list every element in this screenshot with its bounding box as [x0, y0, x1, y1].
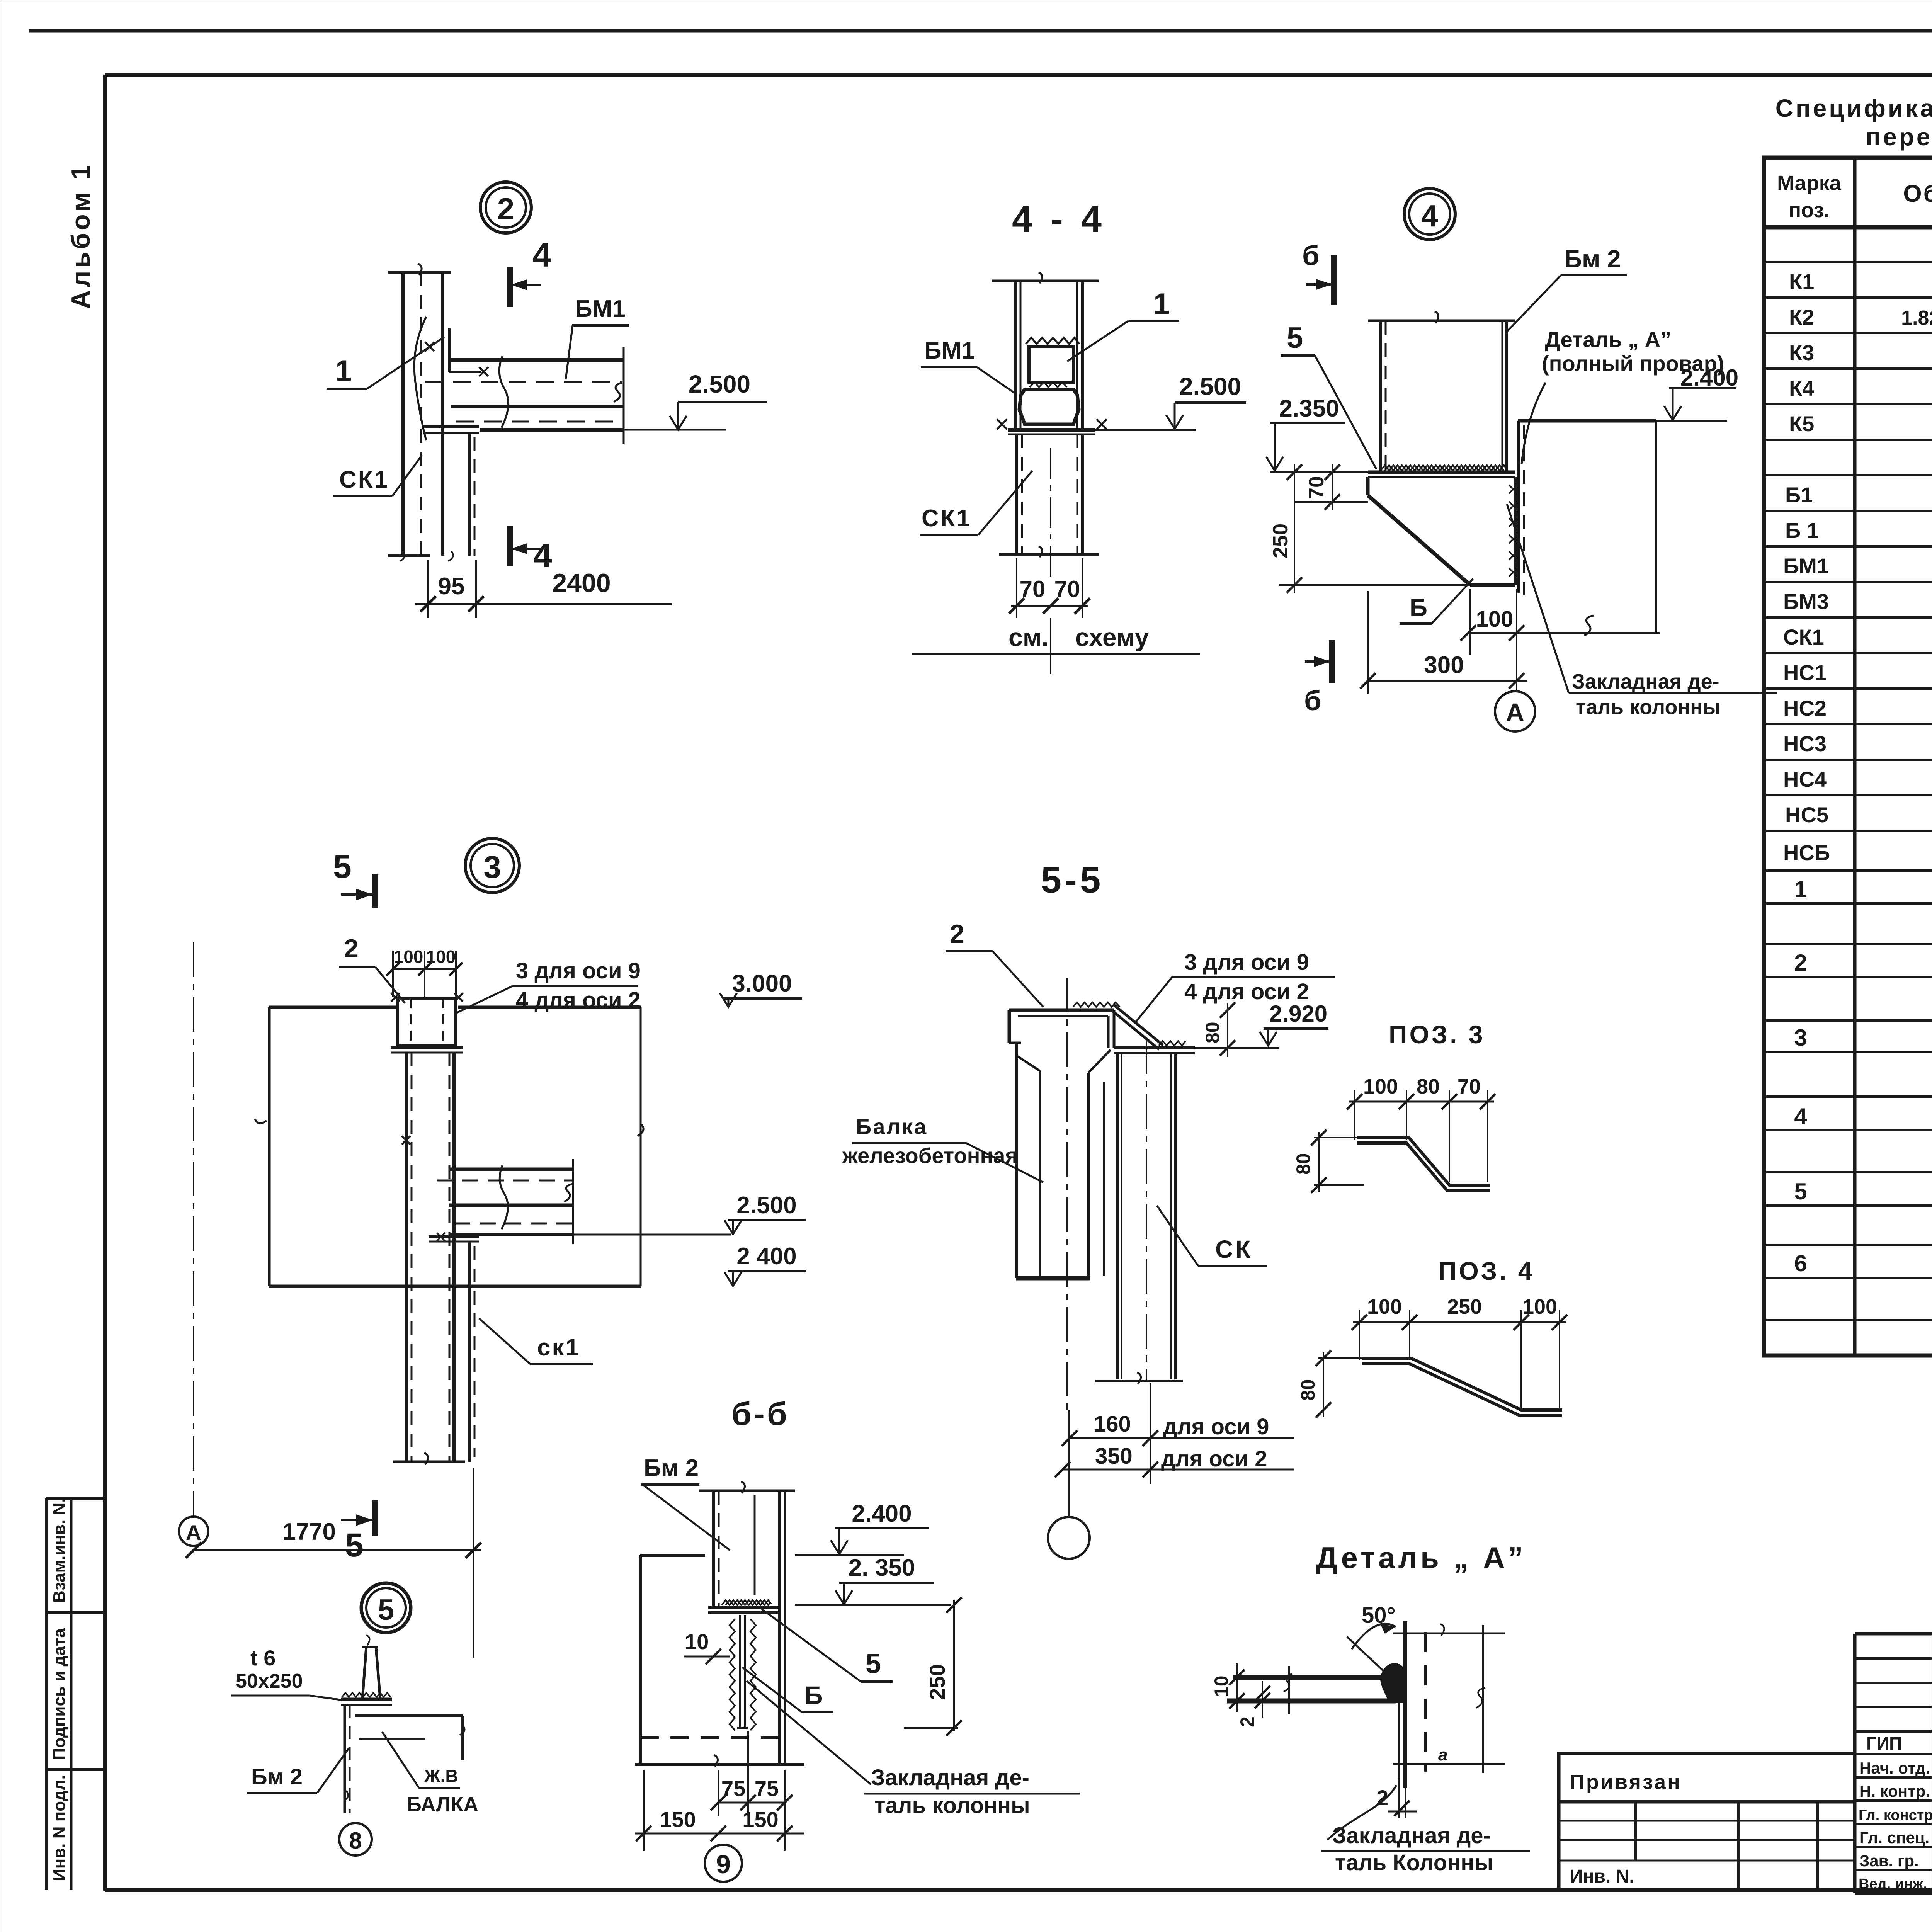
spec table rows text	[1783, 232, 1932, 865]
svg-text:Альбом 1: Альбом 1	[66, 162, 95, 309]
plate node5	[341, 1693, 392, 1705]
label БМ1 4-4	[921, 337, 1016, 394]
column node3	[393, 1053, 465, 1464]
поз.4 plate	[1362, 1358, 1562, 1415]
svg-text:1770: 1770	[282, 1519, 336, 1545]
column top 4-4	[992, 272, 1099, 430]
dim 1770 node3	[186, 1468, 481, 1658]
node 4 bubble	[1404, 189, 1455, 240]
wall 6-6	[635, 1555, 804, 1767]
section mark 5 top node3	[333, 848, 375, 908]
extension line with break деталь А	[1284, 1666, 1292, 1714]
svg-text:таль Колонны: таль Колонны	[1335, 1850, 1493, 1875]
svg-text:см.: см.	[1009, 623, 1049, 651]
svg-text:перекрытия, фахверковых: перекрытия, фахверковых стоек	[1866, 123, 1932, 151]
svg-text:таль колонны: таль колонны	[874, 1793, 1030, 1818]
svg-text:2.400: 2.400	[1680, 365, 1738, 391]
svg-text:t 6: t 6	[250, 1646, 276, 1670]
svg-text:Н. контр.: Н. контр.	[1859, 1782, 1930, 1800]
label Б node4	[1400, 579, 1473, 624]
svg-text:80: 80	[1297, 1379, 1319, 1401]
svg-text:2.500: 2.500	[736, 1192, 796, 1219]
svg-text:К3: К3	[1789, 340, 1814, 365]
svg-text:350: 350	[1095, 1444, 1133, 1469]
svg-text:поз.: поз.	[1789, 199, 1830, 222]
поз.4 title	[1438, 1257, 1535, 1285]
left margin strip table	[46, 1498, 105, 1890]
svg-text:К1: К1	[1789, 269, 1814, 294]
beam БМ1 cross-section 4-4	[1019, 389, 1079, 424]
svg-text:для оси 9: для оси 9	[1163, 1414, 1269, 1439]
label жб балка node5	[382, 1732, 478, 1816]
svg-text:СК1: СК1	[339, 466, 389, 493]
dim 10 6-6	[684, 1629, 730, 1664]
elevation 2.920 5-5	[1195, 1001, 1328, 1048]
spec table header texts	[1777, 163, 1932, 222]
svg-text:2: 2	[1794, 950, 1807, 976]
lower slab 2.400 node3	[269, 1007, 643, 1286]
svg-text:Нач. отд.: Нач. отд.	[1859, 1759, 1930, 1777]
plate 6-6	[708, 1607, 781, 1612]
sloped plate pos3/4 5-5	[1111, 1005, 1163, 1049]
label 1 4-4	[1067, 287, 1179, 361]
axis line А node3	[179, 942, 208, 1546]
svg-text:Обозначение: Обозначение	[1903, 180, 1932, 207]
top slab line 3.000 node3	[255, 1007, 641, 1286]
svg-text:4: 4	[532, 236, 551, 274]
section mark 5 bottom node3	[341, 1500, 375, 1564]
svg-text:ПОЗ. 4: ПОЗ. 4	[1438, 1257, 1535, 1285]
dim 250 6-6	[904, 1597, 962, 1736]
dim 80 top 5-5	[1202, 1002, 1235, 1057]
svg-text:70: 70	[1054, 576, 1080, 602]
svg-text:80: 80	[1293, 1153, 1314, 1175]
svg-text:Деталь „ А”: Деталь „ А”	[1545, 327, 1671, 352]
label СК 5-5	[1157, 1206, 1267, 1266]
svg-text:для оси 2: для оси 2	[1161, 1446, 1267, 1471]
svg-text:а: а	[1438, 1745, 1447, 1764]
column flange деталь А	[1399, 1621, 1425, 1788]
svg-text:Деталь „ А”: Деталь „ А”	[1316, 1541, 1526, 1575]
деталь А title	[1316, 1541, 1526, 1575]
label 5 6-6	[762, 1609, 893, 1682]
svg-text:БМ1: БМ1	[924, 337, 975, 364]
svg-text:схему: схему	[1075, 623, 1149, 651]
channel cap 5-5	[1009, 1010, 1114, 1048]
svg-text:Марка: Марка	[1777, 172, 1842, 195]
svg-text:Балка: Балка	[856, 1114, 928, 1139]
svg-text:1.823.1- 2 вып.1: 1.823.1- 2 вып.1	[1901, 307, 1932, 329]
section 4-4 title	[1012, 199, 1105, 240]
svg-text:100: 100	[1363, 1075, 1398, 1098]
svg-text:1: 1	[1794, 876, 1807, 902]
dim 2 bottom деталь А	[1376, 1780, 1417, 1818]
dim 100 node4	[1470, 589, 1513, 655]
svg-text:НС4: НС4	[1783, 767, 1827, 791]
column БМ2 6-6	[699, 1481, 795, 1764]
pos1 plate in section 4-4	[1026, 338, 1079, 387]
label 5 node4	[1281, 321, 1376, 469]
fraction 3/4 для оси 5-5	[1136, 950, 1335, 1022]
svg-text:70: 70	[1020, 576, 1046, 602]
node 3 bubble	[465, 838, 519, 893]
label 3/4 для оси node3	[456, 958, 641, 1013]
svg-text:4 для оси 2: 4 для оси 2	[516, 988, 641, 1013]
concrete column 5-5	[1016, 978, 1111, 1410]
svg-text:75: 75	[755, 1776, 779, 1801]
dims 95 / 2400 node2	[415, 560, 672, 618]
svg-text:70: 70	[1458, 1075, 1481, 1098]
закладная деталь text деталь А	[1321, 1785, 1530, 1875]
svg-text:250: 250	[925, 1664, 949, 1700]
svg-text:2.920: 2.920	[1269, 1001, 1327, 1027]
node 2 bubble	[480, 182, 531, 233]
section 6-6 title	[731, 1396, 789, 1432]
horizontal plate 5-5	[1114, 1041, 1195, 1053]
svg-text:БАЛКА: БАЛКА	[406, 1793, 478, 1816]
svg-text:1: 1	[335, 354, 352, 387]
svg-text:80: 80	[1202, 1022, 1223, 1043]
svg-text:Ж.В: Ж.В	[424, 1766, 458, 1786]
elevation 3.000 node3	[720, 970, 802, 1007]
svg-text:2: 2	[344, 934, 359, 963]
svg-text:БМ1: БМ1	[575, 296, 626, 322]
svg-text:Взам.инв. N.: Взам.инв. N.	[50, 1498, 69, 1603]
svg-text:СК1: СК1	[1783, 625, 1824, 649]
elevation 2.500 node2	[624, 370, 767, 430]
label 2 5-5	[946, 919, 1043, 1007]
dims 75 75 6-6	[711, 1776, 793, 1810]
svg-text:5: 5	[1287, 321, 1303, 354]
section mark 4 bottom	[510, 526, 552, 575]
svg-text:Привязан: Привязан	[1570, 1770, 1682, 1794]
label БМ1 node2	[566, 296, 629, 379]
svg-text:СК1: СК1	[922, 505, 971, 532]
label Б 6-6	[742, 1667, 833, 1712]
svg-text:Б: Б	[804, 1681, 823, 1709]
Деталь А text node4	[1522, 327, 1724, 464]
spec table numbered items 1-6	[1794, 876, 1932, 1320]
label 1 node2	[327, 337, 444, 389]
svg-text:Зав. гр.: Зав. гр.	[1859, 1852, 1919, 1870]
svg-text:б: б	[1302, 240, 1319, 271]
svg-text:2.400: 2.400	[852, 1500, 912, 1527]
privyazan block	[1559, 1753, 1855, 1889]
corbel node4	[1368, 477, 1517, 585]
dims 100 100 node3	[386, 947, 463, 997]
svg-text:СК: СК	[1215, 1235, 1253, 1263]
spec table grid	[1764, 158, 1932, 1355]
section mark б top node4	[1302, 240, 1334, 305]
elevation 2.400 node3	[724, 1243, 806, 1286]
svg-text:95: 95	[438, 573, 465, 600]
svg-text:250: 250	[1447, 1295, 1482, 1318]
svg-text:НС3: НС3	[1783, 731, 1827, 756]
spec table title	[1776, 94, 1932, 151]
embedded stud 6-6	[730, 1615, 756, 1730]
beam БМ1 node2	[425, 347, 624, 444]
svg-text:2: 2	[1236, 1716, 1258, 1727]
svg-text:4: 4	[1794, 1104, 1807, 1129]
label СК1 4-4	[920, 471, 1032, 535]
node 5 bubble	[361, 1583, 411, 1633]
svg-text:3: 3	[1794, 1025, 1807, 1051]
elevation 2.400 6-6	[795, 1500, 929, 1555]
svg-text:100: 100	[1367, 1295, 1402, 1318]
svg-text:8: 8	[349, 1828, 362, 1854]
svg-text:Закладная де-: Закладная де-	[1332, 1823, 1491, 1848]
поз.3 title	[1389, 1020, 1485, 1049]
dim 70 node4	[1294, 464, 1368, 510]
svg-text:НС2: НС2	[1783, 696, 1827, 720]
section mark б bottom node4	[1304, 640, 1332, 716]
svg-text:ск1: ск1	[537, 1334, 580, 1361]
angle piece pos1 node2	[425, 328, 488, 376]
svg-text:ПОЗ. 3: ПОЗ. 3	[1389, 1020, 1485, 1049]
svg-text:4: 4	[1421, 199, 1439, 233]
svg-text:5-5: 5-5	[1041, 859, 1104, 901]
wall slab 2.400 node4	[1461, 421, 1727, 641]
svg-text:250: 250	[1269, 524, 1292, 558]
signature table	[1855, 1634, 1932, 1893]
svg-text:80: 80	[1417, 1075, 1440, 1098]
section mark 4 top	[510, 236, 551, 307]
svg-text:Б 1: Б 1	[1785, 518, 1819, 543]
column below 4-4	[999, 434, 1099, 578]
svg-text:5: 5	[866, 1648, 881, 1679]
label Бм2 6-6	[641, 1455, 730, 1550]
svg-text:К4: К4	[1789, 376, 1814, 400]
seat plate node2	[423, 426, 479, 556]
svg-text:НС1: НС1	[1783, 660, 1827, 685]
svg-text:НС5: НС5	[1785, 803, 1828, 827]
svg-text:б: б	[1304, 685, 1321, 716]
beam БМ3 node3	[437, 1159, 573, 1244]
svg-text:Б: Б	[1410, 594, 1427, 621]
жб балка node5	[355, 1716, 465, 1760]
svg-text:10: 10	[1211, 1675, 1232, 1697]
поз.3 plate	[1357, 1138, 1490, 1190]
label Балка железобетонная 5-5	[842, 1114, 1043, 1182]
svg-text:2: 2	[950, 919, 964, 949]
svg-text:Спецификация к схеме располо: Спецификация к схеме расположения колонн…	[1776, 94, 1932, 122]
svg-text:Закладная де-: Закладная де-	[1572, 670, 1719, 693]
weld blob деталь А	[1380, 1663, 1407, 1703]
svg-text:6: 6	[1794, 1250, 1807, 1276]
elevation 2.350 node4	[1266, 395, 1345, 471]
svg-text:10: 10	[685, 1629, 709, 1654]
svg-text:Бм 2: Бм 2	[1564, 245, 1621, 273]
поз.4 dims	[1297, 1295, 1567, 1418]
plate деталь А	[1227, 1677, 1396, 1701]
svg-text:5: 5	[378, 1594, 394, 1626]
svg-text:Вед. инж.: Вед. инж.	[1859, 1876, 1927, 1892]
label ск1 node3	[479, 1318, 593, 1364]
node 9 bubble	[705, 1845, 742, 1882]
weld strip 6-6	[722, 1600, 771, 1605]
svg-text:70: 70	[1305, 476, 1328, 499]
seat and bracket node3	[429, 1233, 479, 1462]
vertical label: Альбом 1	[66, 162, 95, 309]
svg-text:Бм 2: Бм 2	[644, 1455, 699, 1481]
dims 160/350 для оси 5-5	[1055, 1383, 1294, 1484]
svg-text:2.500: 2.500	[1179, 372, 1241, 400]
svg-text:2. 350: 2. 350	[849, 1554, 915, 1581]
dim 10 деталь А	[1211, 1663, 1245, 1712]
axis bubble under 5-5	[1048, 1410, 1090, 1559]
beam БМ2 node5	[344, 1705, 350, 1813]
post node5	[362, 1635, 380, 1699]
label t6 50x250	[231, 1646, 343, 1700]
dim 300 node4	[1360, 589, 1527, 694]
dim 2 left деталь А	[1236, 1681, 1270, 1727]
svg-text:2.350: 2.350	[1279, 395, 1339, 422]
svg-text:9: 9	[716, 1850, 731, 1879]
axis bubble А node4	[1495, 691, 1535, 731]
svg-text:2400: 2400	[552, 568, 611, 598]
svg-text:300: 300	[1424, 652, 1464, 679]
svg-text:Бм 2: Бм 2	[251, 1764, 303, 1789]
elevation 2.500 node3	[573, 1192, 806, 1235]
bottom tick деталь А	[1393, 1745, 1505, 1764]
weld strip node4	[1381, 465, 1508, 471]
svg-text:К5: К5	[1789, 412, 1814, 436]
svg-text:1: 1	[1153, 287, 1170, 320]
svg-text:2: 2	[497, 192, 515, 226]
svg-text:БМ3: БМ3	[1783, 589, 1829, 614]
svg-text:2 400: 2 400	[736, 1243, 796, 1270]
svg-text:А: А	[1506, 698, 1524, 726]
top trim line	[29, 29, 1932, 33]
svg-text:50х250: 50х250	[236, 1670, 303, 1692]
svg-text:4 - 4: 4 - 4	[1012, 199, 1105, 240]
svg-text:3: 3	[483, 850, 501, 885]
svg-text:5: 5	[1794, 1179, 1807, 1204]
svg-text:б-б: б-б	[731, 1396, 789, 1432]
svg-text:Подпись и дата: Подпись и дата	[50, 1628, 69, 1760]
elevation 2.400 node4	[1664, 365, 1738, 420]
column СК1 node2	[388, 264, 453, 561]
dims 150 150 6-6	[635, 1731, 804, 1851]
svg-text:таль колонны: таль колонны	[1576, 696, 1721, 719]
weld hatch on cap 5-5	[1073, 1002, 1120, 1007]
50 degree callout	[1347, 1603, 1396, 1676]
elevation 2.350 6-6	[795, 1554, 951, 1605]
svg-text:2.500: 2.500	[689, 370, 750, 398]
закладная деталь text 6-6	[747, 1681, 1080, 1818]
steel column СК 5-5	[1095, 1039, 1183, 1384]
svg-text:Гл. констр: Гл. констр	[1859, 1807, 1932, 1823]
svg-text:3.000: 3.000	[732, 970, 792, 997]
label СК1 node2	[333, 455, 422, 496]
svg-text:160: 160	[1094, 1412, 1131, 1437]
закладная деталь text node4	[1507, 504, 1777, 719]
elevation 2.500 4-4	[1095, 372, 1246, 430]
svg-text:150: 150	[660, 1807, 696, 1832]
поз.3 dims	[1293, 1075, 1495, 1193]
svg-text:Б1: Б1	[1785, 483, 1813, 507]
support plate 4-4	[997, 419, 1107, 434]
label Бм2 node5	[247, 1748, 349, 1793]
svg-text:4: 4	[533, 536, 552, 575]
node 8 bubble	[339, 1823, 372, 1855]
top tick деталь А	[1393, 1624, 1505, 1636]
label 2 node3	[339, 934, 405, 1003]
svg-text:БМ1: БМ1	[1783, 554, 1829, 578]
svg-text:НСБ: НСБ	[1783, 840, 1830, 865]
svg-text:5: 5	[345, 1527, 364, 1564]
svg-text:А: А	[186, 1520, 201, 1545]
svg-text:ГИП: ГИП	[1866, 1733, 1902, 1753]
bearing plate node4	[1270, 472, 1515, 477]
dims 70 70 4-4	[1009, 558, 1090, 618]
svg-text:100: 100	[1522, 1295, 1557, 1318]
svg-text:Гл. спец.: Гл. спец.	[1859, 1828, 1929, 1847]
column БМ2 node4	[1368, 311, 1515, 471]
svg-text:К2: К2	[1789, 305, 1814, 329]
svg-text:3 для оси 9: 3 для оси 9	[516, 958, 641, 983]
section 5-5 title	[1041, 859, 1104, 901]
label Бм2 node4	[1507, 245, 1627, 332]
svg-text:Закладная де-: Закладная де-	[871, 1765, 1029, 1790]
right dim 2 деталь А	[1476, 1625, 1485, 1773]
svg-text:100: 100	[1476, 607, 1514, 632]
svg-text:Инв. N подл.: Инв. N подл.	[50, 1775, 69, 1881]
svg-text:3 для оси 9: 3 для оси 9	[1184, 950, 1309, 975]
см. схему 4-4	[912, 618, 1200, 674]
svg-text:Инв. N.: Инв. N.	[1570, 1866, 1634, 1887]
svg-text:5: 5	[333, 848, 352, 885]
dim 250 node4	[1269, 464, 1470, 593]
cap насадка node3	[391, 993, 463, 1053]
